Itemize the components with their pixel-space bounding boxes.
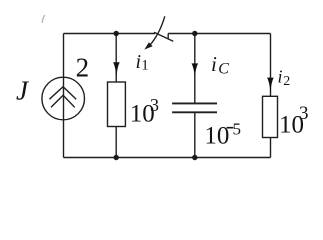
node: bottom junction capacitor xyxy=(192,155,197,160)
current source J circle xyxy=(42,77,85,120)
current arrow i1 xyxy=(113,62,120,77)
stray faint mark top-left xyxy=(42,15,45,23)
node: top junction branch1 xyxy=(114,31,119,36)
svg-text:i: i xyxy=(211,52,217,76)
wire capacitor branch bottom xyxy=(194,112,196,157)
svg-text:3: 3 xyxy=(150,95,159,115)
svg-text:5: 5 xyxy=(233,119,242,138)
node: top junction capacitor xyxy=(192,31,197,36)
wire right vertical top xyxy=(270,34,272,97)
current source chevron upper xyxy=(49,87,76,100)
svg-text:10: 10 xyxy=(204,123,229,150)
svg-text:1: 1 xyxy=(141,58,149,74)
switch right contact stub xyxy=(167,34,169,39)
switch motion arc xyxy=(149,16,165,46)
wire branch1 top xyxy=(115,34,117,83)
wire right vertical bottom xyxy=(270,138,272,158)
svg-text:3: 3 xyxy=(299,103,309,124)
switch blade xyxy=(154,32,173,41)
svg-text:2: 2 xyxy=(283,74,290,89)
svg-text:2: 2 xyxy=(76,52,90,82)
wire capacitor branch top xyxy=(194,34,196,104)
node: bottom junction branch1 xyxy=(114,155,119,160)
capacitor C plates xyxy=(172,103,217,112)
resistor R1 xyxy=(108,82,126,127)
current arrow iC xyxy=(192,63,199,77)
wire top rail right segment xyxy=(168,33,270,35)
wire branch1 bottom xyxy=(115,127,117,158)
svg-text:C: C xyxy=(218,60,229,77)
switch arc arrowhead xyxy=(144,42,152,49)
wire top rail left segment xyxy=(64,33,156,35)
current source chevron lower xyxy=(51,95,75,107)
wire left vertical with source shaft xyxy=(63,34,65,158)
resistor R2 xyxy=(263,96,278,137)
wire bottom rail xyxy=(64,157,271,159)
current arrow i2 xyxy=(267,78,274,93)
svg-text:i: i xyxy=(278,67,283,87)
svg-text:J: J xyxy=(16,76,30,106)
